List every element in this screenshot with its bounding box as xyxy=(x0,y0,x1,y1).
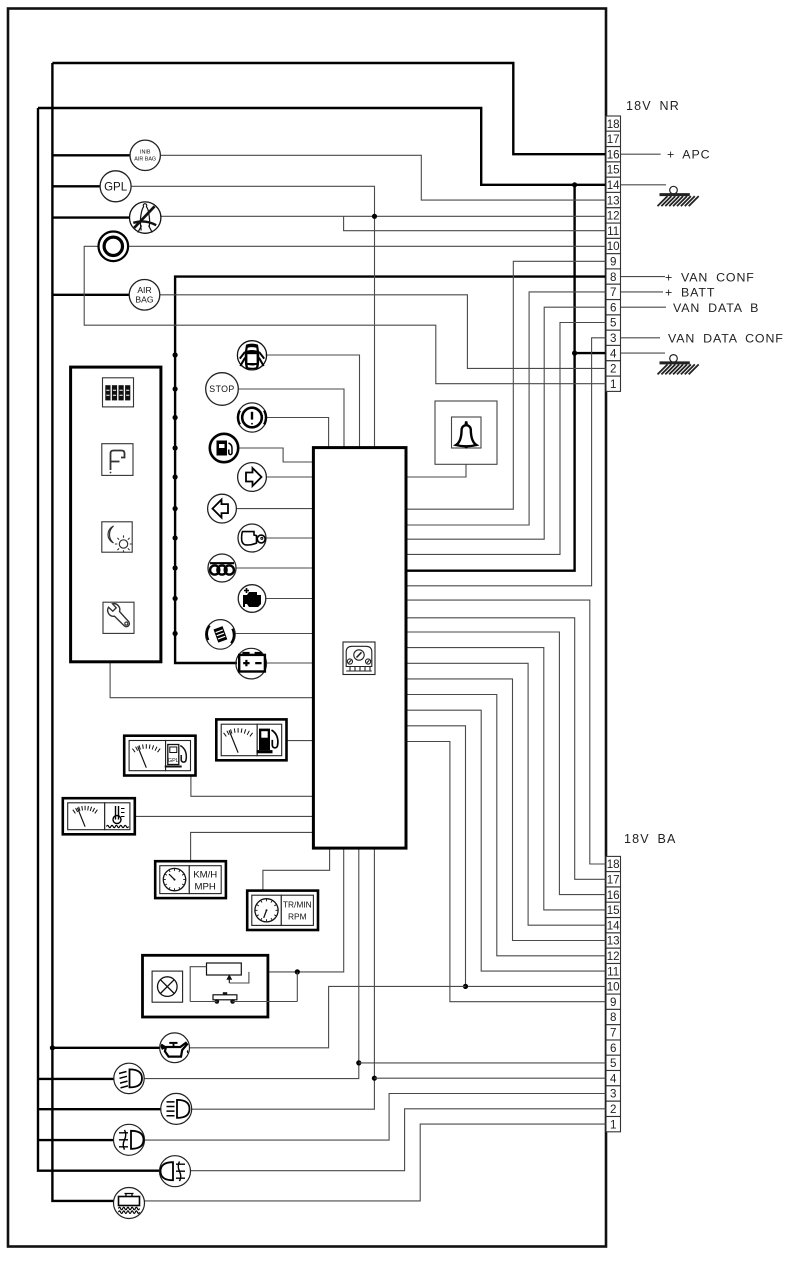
junction ground / NR4 row xyxy=(572,351,577,356)
switch xyxy=(213,995,237,1000)
coolant level icon xyxy=(114,1188,145,1219)
fuel pump indicator xyxy=(210,434,238,462)
stub NR14 ground xyxy=(621,184,667,186)
wire coil icon to box xyxy=(236,567,312,569)
brake warning indicator xyxy=(237,403,266,432)
wire brake icon to box top xyxy=(267,418,329,447)
seat belt indicator xyxy=(130,202,161,233)
svg-text:7: 7 xyxy=(610,1027,616,1040)
svg-text:6: 6 xyxy=(610,1042,616,1055)
stub NR8 +VAN CONF xyxy=(621,276,666,278)
wire box to BA pin 10 xyxy=(406,726,606,987)
wire display box to processor box xyxy=(110,662,312,698)
wrench (service) icon xyxy=(103,602,134,633)
car doors indicator xyxy=(237,341,266,370)
wire oil icon to BA pin 10 row xyxy=(190,986,466,1047)
wire bus B tap to low beam xyxy=(38,1078,114,1080)
stub NR6 VAN DATA B xyxy=(621,306,667,308)
wire bell to box right edge xyxy=(406,464,466,477)
svg-text:RPM: RPM xyxy=(288,912,307,922)
wire STOP icon to box top xyxy=(239,389,345,447)
border frame xyxy=(8,9,606,1247)
junction BA5 row xyxy=(356,1060,361,1065)
wire temp gauge to box xyxy=(135,815,312,817)
junction bus E tap y=417.5 xyxy=(173,415,178,420)
svg-text:14: 14 xyxy=(607,179,620,192)
svg-text:18: 18 xyxy=(607,858,620,871)
wire box to NR pin 5 xyxy=(406,323,606,555)
svg-text:6: 6 xyxy=(610,301,616,314)
wire box to BA pin 17 xyxy=(406,618,606,880)
wire box to NR pin 7 xyxy=(406,292,606,525)
junction bus E tap y=633.5 xyxy=(173,631,178,636)
GPL indicator xyxy=(100,171,131,202)
wire GPL down to processor box top xyxy=(131,186,375,446)
bell box (chime) xyxy=(435,401,497,464)
key / diagnostic indicator xyxy=(238,524,266,552)
svg-text:18: 18 xyxy=(607,118,620,131)
high beam icon xyxy=(161,1093,192,1124)
svg-text:10: 10 xyxy=(607,981,620,994)
svg-text:7: 7 xyxy=(610,286,616,299)
svg-text:9: 9 xyxy=(610,996,616,1009)
wire box-bottom / low beam vertical xyxy=(144,849,359,1079)
wire box to NR pin 6 xyxy=(406,307,606,539)
svg-text:4: 4 xyxy=(610,347,617,360)
wire box to NR pin 9 xyxy=(406,261,606,509)
svg-text:1: 1 xyxy=(610,378,616,391)
svg-text:VAN DATA CONF: VAN DATA CONF xyxy=(668,332,784,346)
junction BA4 row xyxy=(372,1076,377,1081)
low beam icon xyxy=(114,1063,144,1093)
connector 18V NR xyxy=(606,116,621,391)
svg-text:MPH: MPH xyxy=(195,882,216,893)
wire top feed line B (ground net) to NR pin 14 xyxy=(38,108,606,185)
junction seat belt / GPL vertical xyxy=(372,214,377,219)
svg-text:11: 11 xyxy=(607,225,619,238)
wire AIR BAG to NR pin 2 xyxy=(160,295,606,369)
wire coolant to BA pin 1 xyxy=(145,1124,607,1201)
wire fuel icon to box left edge xyxy=(238,448,312,462)
junction bus E tap y=448 xyxy=(173,445,178,450)
stub NR3 VAN DATA CONF xyxy=(621,337,661,339)
wire top feed line A (+APC net) to NR pin 16 xyxy=(52,63,606,154)
wire bus B tap to front fog xyxy=(38,1139,114,1141)
junction bus E tap y=568 xyxy=(173,565,178,570)
wire left-arrow icon to box xyxy=(237,508,313,510)
wire box to NR pin 3 xyxy=(406,338,606,586)
bell symbol xyxy=(456,421,476,449)
GPL gauge xyxy=(124,736,195,776)
junction bus E tap y=508.6 xyxy=(173,506,178,511)
svg-text:17: 17 xyxy=(607,874,620,887)
svg-text:2: 2 xyxy=(610,363,616,376)
wire ground branch to NR pin 4 xyxy=(575,352,606,354)
wire left bus B vertical xyxy=(38,108,160,1171)
junction bus E tap y=598.5 xyxy=(173,596,178,601)
wire bus A tap to INIB AIR BAG xyxy=(52,154,130,156)
wire ring icon left path to NR pin 1 xyxy=(84,246,606,383)
wire BA pin 4 row xyxy=(374,1077,606,1079)
wire box to BA pin 13 xyxy=(406,679,606,941)
svg-text:16: 16 xyxy=(607,889,620,902)
wire speedometer to box xyxy=(191,832,312,861)
svg-text:9: 9 xyxy=(610,256,616,269)
ring (brake) indicator xyxy=(99,232,129,262)
odometer digits icon xyxy=(103,378,134,407)
wire right-arrow icon to box xyxy=(267,476,313,478)
wire GPL gauge to box xyxy=(191,776,312,797)
display module box xyxy=(71,367,161,662)
svg-text:12: 12 xyxy=(607,950,620,963)
wire bus A tap to seat belt xyxy=(52,216,129,218)
fuel gauge xyxy=(216,719,286,760)
svg-text:15: 15 xyxy=(607,904,620,917)
lamp symbol xyxy=(152,971,183,1002)
ground symbol 1 xyxy=(658,186,699,206)
wire rheostat switch branch xyxy=(296,972,298,1002)
INIB AIR BAG indicator xyxy=(130,140,160,170)
door/F icon xyxy=(102,444,133,476)
svg-text:17: 17 xyxy=(607,133,620,146)
connector 18V BA xyxy=(606,856,621,1131)
stub NR4 ground xyxy=(621,352,666,354)
svg-text:5: 5 xyxy=(610,317,616,330)
svg-text:INIB: INIB xyxy=(140,149,151,155)
svg-text:13: 13 xyxy=(607,194,620,207)
svg-text:2: 2 xyxy=(610,1103,616,1116)
wire bus B tap to high beam xyxy=(38,1108,161,1110)
rheostat / lighting dimmer box xyxy=(143,955,268,1017)
wire BA pin 5 row xyxy=(359,1062,606,1064)
wire box to BA pin 11 xyxy=(406,710,606,971)
svg-text:3: 3 xyxy=(610,1088,616,1101)
wire fuel gauge to box xyxy=(287,740,313,742)
svg-text:1: 1 xyxy=(610,1118,616,1131)
wire bus A tap to oil icon xyxy=(52,1047,159,1049)
wire seat belt row to NR pin 12 xyxy=(161,215,606,217)
battery indicator xyxy=(236,648,267,679)
AIR BAG indicator xyxy=(129,280,160,311)
rear fog / position lamp icon xyxy=(160,1156,191,1187)
svg-text:BAG: BAG xyxy=(135,294,153,304)
svg-text:14: 14 xyxy=(607,919,620,932)
wire tachometer to box bottom xyxy=(263,849,330,891)
svg-text:13: 13 xyxy=(607,935,620,948)
junction bus E tap y=538 xyxy=(173,535,178,540)
wire engine icon to box xyxy=(266,598,313,600)
stub NR16 +APC xyxy=(621,153,661,155)
S (sport) indicator xyxy=(206,620,236,650)
svg-text:AIR BAG: AIR BAG xyxy=(134,157,156,163)
wire ground vertical NR14-NR4-box xyxy=(406,185,575,571)
wire key icon to box xyxy=(266,537,312,539)
wire box to BA pin 14 xyxy=(406,663,606,925)
svg-text:11: 11 xyxy=(607,965,619,978)
wire front fog to BA pin 3 xyxy=(145,1094,607,1141)
wire branch to NR pin 11 xyxy=(344,216,606,230)
wire rear lamp to BA pin 2 xyxy=(190,1109,606,1171)
wire bus A tap to GPL xyxy=(52,185,100,187)
svg-text:AIR: AIR xyxy=(137,285,151,295)
svg-text:+ VAN CONF: + VAN CONF xyxy=(665,270,755,284)
glow plug coil indicator xyxy=(208,554,236,582)
wire left bus A vertical xyxy=(52,63,113,1201)
wire rheostat to box bottom xyxy=(241,849,344,972)
wire S icon to box xyxy=(234,633,312,635)
junction BA10 row / oil path xyxy=(463,984,468,989)
wire box to BA pin 12 xyxy=(406,695,606,956)
svg-text:3: 3 xyxy=(610,332,616,345)
meter icon inside processor box xyxy=(343,642,375,675)
wire car icon to box top xyxy=(266,355,360,447)
temperature gauge xyxy=(63,798,135,834)
svg-text:STOP: STOP xyxy=(209,384,234,394)
junction ground / NR14 row xyxy=(572,182,577,187)
svg-text:GPL: GPL xyxy=(104,182,128,194)
oil pressure icon xyxy=(160,1033,190,1063)
junction bus E tap y=355 xyxy=(173,352,178,357)
svg-text:12: 12 xyxy=(607,210,620,223)
tachometer xyxy=(247,891,318,930)
front fog icon xyxy=(114,1124,145,1155)
svg-text:TR/MIN: TR/MIN xyxy=(283,900,312,910)
wire box to BA pin 9 xyxy=(406,742,606,1002)
wire ring icon to NR pin 10 xyxy=(129,245,606,247)
potentiometer xyxy=(207,963,242,975)
left turn arrow indicator xyxy=(208,494,237,523)
speedometer xyxy=(155,861,226,898)
svg-text:8: 8 xyxy=(610,1011,616,1024)
svg-text:4: 4 xyxy=(610,1072,617,1085)
svg-text:18V BA: 18V BA xyxy=(624,832,677,846)
engine (MIL) indicator xyxy=(238,585,266,613)
svg-text:GPL: GPL xyxy=(168,758,179,764)
right turn arrow indicator xyxy=(238,463,267,492)
wire box to BA pin 15 xyxy=(406,648,606,910)
junction rheostat wire xyxy=(295,969,300,974)
wire box-bottom / high beam vertical xyxy=(191,849,374,1109)
ground symbol 2 xyxy=(658,355,699,375)
svg-text:10: 10 xyxy=(607,240,620,253)
processor box U1 (instrument cluster computer) xyxy=(313,448,406,848)
wire icon bus E / NR pin 8 row (+VAN CONF) xyxy=(175,277,606,663)
svg-text:16: 16 xyxy=(607,148,620,161)
svg-text:KM/H: KM/H xyxy=(193,870,217,881)
svg-text:+ BATT: + BATT xyxy=(665,286,715,300)
junction bus E tap y=389 xyxy=(173,386,178,391)
junction bus E tap y=477 xyxy=(173,474,178,479)
wire INIB AIR BAG to NR pin 13 xyxy=(160,155,606,200)
wire battery icon to box xyxy=(267,662,312,664)
svg-text:15: 15 xyxy=(607,164,620,177)
svg-text:+ APC: + APC xyxy=(667,148,710,162)
wire bus A tap to AIR BAG xyxy=(52,294,129,296)
svg-text:VAN DATA B: VAN DATA B xyxy=(673,301,759,315)
moon and sun (dimming) icon xyxy=(102,522,132,553)
STOP indicator xyxy=(206,373,239,406)
wire box to BA pin 16 xyxy=(406,632,606,895)
wire box to BA pin 18 xyxy=(406,600,606,864)
stub NR7 +BATT xyxy=(621,291,664,293)
svg-text:18V NR: 18V NR xyxy=(626,99,680,113)
svg-text:5: 5 xyxy=(610,1057,616,1070)
junction bus A / oil wire xyxy=(50,1045,55,1050)
svg-text:8: 8 xyxy=(610,271,616,284)
